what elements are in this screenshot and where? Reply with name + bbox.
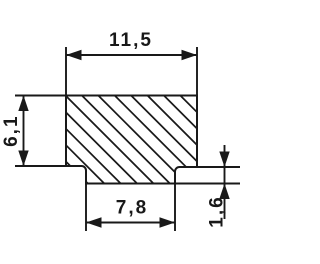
dimension 11,5 : extension line left (65, 47, 67, 96)
dimension 7,8 : dimension line (86, 222, 175, 224)
dimension 1,6 : lower arrowhead (points up) (219, 184, 229, 200)
svg-text:6,1: 6,1 (1, 114, 22, 146)
svg-text:1,6: 1,6 (207, 195, 228, 227)
dimension 1,6 : dimension line (224, 145, 226, 219)
svg-text:11,5: 11,5 (109, 30, 153, 51)
dimension 6,1 : top arrowhead (18, 96, 28, 112)
dimension 1,6 : extension line bottom (175, 183, 240, 185)
dimension 6,1 : dimension line (23, 96, 25, 167)
dimension 6,1 : extension line bottom (15, 165, 66, 167)
dimension 7,8 : extension line left (85, 184, 87, 231)
dimension 7,8 : extension line right (174, 184, 176, 231)
hatching (section lines) (50, 0, 215, 264)
dimension 6,1 : extension line top (15, 95, 66, 97)
dimension 7,8 : right arrowhead (160, 217, 176, 227)
dimension 1,6 : extension line top (197, 166, 240, 168)
profile outline (inverted-T cross-section) (66, 96, 197, 184)
dimension 11,5 : dimension line (66, 54, 197, 56)
dimension 11,5 : extension line right (196, 47, 198, 96)
dimension 11,5 : left arrowhead (66, 50, 82, 60)
dimension 11,5 : right arrowhead (182, 50, 198, 60)
dimension 1,6 : upper arrowhead (points down) (219, 152, 229, 168)
dimension 7,8 : left arrowhead (86, 217, 102, 227)
dimension 6,1 : bottom arrowhead (18, 151, 28, 167)
svg-text:7,8: 7,8 (116, 198, 148, 219)
